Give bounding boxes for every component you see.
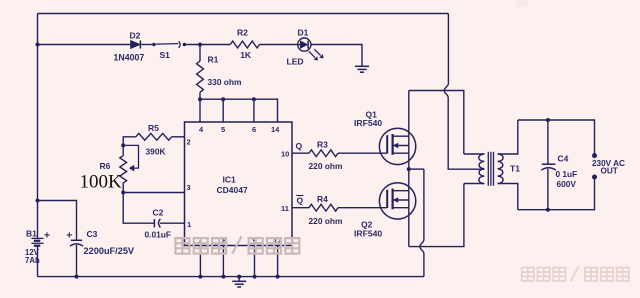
svg-text:11: 11 <box>281 204 289 213</box>
svg-text:7Ah: 7Ah <box>25 256 40 265</box>
svg-text:CD4047: CD4047 <box>217 185 248 195</box>
svg-text:5: 5 <box>221 125 225 134</box>
svg-text:2: 2 <box>187 138 191 147</box>
svg-text:IRF540: IRF540 <box>354 118 382 128</box>
svg-text:+: + <box>44 230 50 242</box>
svg-text:R5: R5 <box>148 123 159 133</box>
svg-text:R1: R1 <box>208 55 219 65</box>
svg-text:3: 3 <box>187 183 191 192</box>
svg-text:100K: 100K <box>80 172 123 193</box>
svg-text:C3: C3 <box>87 229 98 239</box>
svg-text:C4: C4 <box>558 154 569 164</box>
svg-text:S1: S1 <box>160 50 171 60</box>
svg-text:R4: R4 <box>317 194 328 204</box>
svg-text:D2: D2 <box>130 31 141 41</box>
svg-text:R2: R2 <box>237 28 248 38</box>
svg-text:14: 14 <box>271 125 280 134</box>
svg-text:220 ohm: 220 ohm <box>309 216 343 226</box>
svg-text:R6: R6 <box>100 161 111 171</box>
svg-text:1K: 1K <box>240 50 252 60</box>
svg-text:220 ohm: 220 ohm <box>309 161 343 171</box>
svg-text:T1: T1 <box>510 164 520 174</box>
svg-text:Q: Q <box>296 141 303 151</box>
svg-text:OUT: OUT <box>601 167 618 176</box>
svg-text:330 ohm: 330 ohm <box>208 77 242 87</box>
svg-text:Q: Q <box>297 195 304 205</box>
svg-text:600V: 600V <box>557 179 577 189</box>
svg-text:390K: 390K <box>146 146 166 156</box>
svg-text:LED: LED <box>287 57 304 67</box>
svg-text:0.01uF: 0.01uF <box>145 230 172 240</box>
svg-text:B1: B1 <box>26 229 37 239</box>
svg-text:D1: D1 <box>298 28 309 38</box>
svg-text:R3: R3 <box>317 140 328 150</box>
svg-text:C2: C2 <box>153 208 164 218</box>
svg-text:1N4007: 1N4007 <box>114 53 145 63</box>
svg-text:6: 6 <box>252 125 256 134</box>
svg-text:IRF540: IRF540 <box>354 229 382 239</box>
svg-text:IC1: IC1 <box>223 175 237 185</box>
svg-text:2200uF/25V: 2200uF/25V <box>84 246 135 256</box>
svg-text:1: 1 <box>187 220 191 229</box>
svg-text:10: 10 <box>281 149 289 158</box>
svg-text:0 1uF: 0 1uF <box>556 169 578 179</box>
svg-text:+: + <box>66 229 72 241</box>
